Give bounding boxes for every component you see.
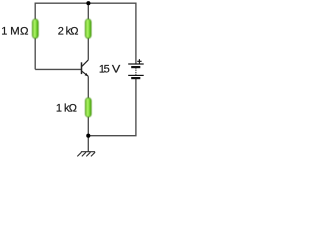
svg-text:2kΩ: 2kΩ xyxy=(58,26,79,38)
svg-text:1kΩ: 1kΩ xyxy=(56,103,77,115)
svg-text:15V: 15V xyxy=(99,63,121,75)
svg-text:1MΩ: 1MΩ xyxy=(1,26,28,38)
